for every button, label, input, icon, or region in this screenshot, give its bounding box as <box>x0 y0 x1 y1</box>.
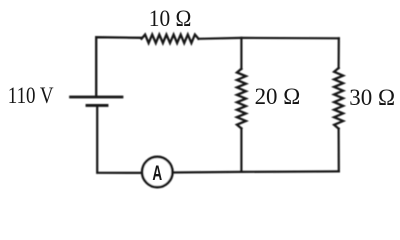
resistor R3 30 ohm <box>334 68 343 129</box>
wire middle vertical bottom <box>240 128 242 172</box>
svg-text:30 Ω: 30 Ω <box>349 85 395 110</box>
battery plate long (positive) <box>71 96 123 99</box>
wire right vertical bottom <box>338 129 340 172</box>
wire right vertical top <box>338 38 340 68</box>
ammeter A (meter circle) <box>142 157 172 187</box>
resistor R2 20 ohm <box>237 69 246 129</box>
wire top right segment <box>199 37 339 40</box>
resistor R1 10 ohm <box>142 35 199 43</box>
wire left vertical bottom (battery - to bottom-left corner) <box>97 107 142 173</box>
svg-text:20 Ω: 20 Ω <box>255 84 301 109</box>
wire middle vertical top <box>240 38 242 69</box>
svg-text:A: A <box>152 161 162 185</box>
wire left vertical top (battery + to top-left corner) <box>96 37 141 96</box>
svg-text:10 Ω: 10 Ω <box>149 6 192 31</box>
wire bottom from ammeter to right corner <box>173 171 339 172</box>
svg-text:110 V: 110 V <box>8 83 54 108</box>
battery plate short (negative) <box>87 104 107 107</box>
